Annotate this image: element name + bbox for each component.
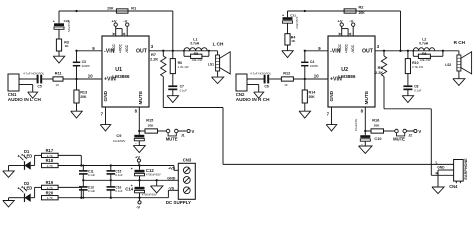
- svg-text:V: V: [192, 129, 195, 134]
- capacitor C5 4.7uF non polar: [37, 75, 39, 84]
- ground below R14: [304, 103, 306, 111]
- wire output left channel: [149, 50, 218, 52]
- svg-text:+VCC: +VCC: [338, 43, 342, 53]
- svg-text:LS1: LS1: [208, 62, 214, 66]
- svg-text:47uF/50V: 47uF/50V: [295, 17, 299, 29]
- svg-text:R: R: [436, 171, 439, 175]
- resistor R16: [365, 130, 371, 132]
- svg-text:-VS: -VS: [168, 186, 175, 190]
- wire R19 right: [58, 186, 81, 188]
- svg-text:0.7uH: 0.7uH: [191, 41, 200, 45]
- wire R10 to C8: [407, 74, 409, 86]
- svg-text:R12: R12: [283, 71, 290, 76]
- capacitor C16 0.1uF: [110, 180, 112, 187]
- jumper J1 MUTE: [166, 129, 170, 133]
- wire corner to speaker R: [458, 51, 460, 55]
- svg-text:2.2K: 2.2K: [375, 71, 383, 75]
- svg-text:CN4: CN4: [449, 184, 458, 189]
- op-amp U2 LM3886 body: [328, 36, 375, 107]
- ground left of D2: [8, 198, 10, 201]
- svg-text:J2: J2: [408, 133, 412, 137]
- svg-text:LM3886: LM3886: [338, 74, 356, 79]
- capacitor C3 220PF: [73, 61, 80, 63]
- svg-text:LED: LED: [24, 186, 32, 191]
- wire R15 to J1: [158, 130, 167, 132]
- ground below CN1: [28, 92, 38, 98]
- ground below C9: [138, 141, 140, 146]
- svg-text:R CH: R CH: [454, 40, 466, 45]
- svg-text:C10: C10: [374, 136, 381, 141]
- svg-text:0.1uF: 0.1uF: [115, 189, 123, 193]
- svg-text:10: 10: [88, 74, 93, 79]
- svg-text:2.7E 1W: 2.7E 1W: [178, 65, 189, 69]
- svg-text:CN2: CN2: [236, 92, 245, 97]
- wire R6 to C7: [172, 74, 174, 86]
- svg-text:10: 10: [314, 74, 319, 79]
- node feedback junction right: [304, 10, 306, 12]
- svg-text:CN3: CN3: [183, 157, 192, 162]
- connector CN3 DC supply: [178, 163, 195, 199]
- svg-text:2.2K: 2.2K: [150, 56, 158, 61]
- svg-text:4700uF/63V: 4700uF/63V: [146, 173, 161, 177]
- svg-text:0.1uF: 0.1uF: [88, 189, 96, 193]
- svg-text:-VCC: -VCC: [351, 44, 355, 53]
- svg-text:10uF/63V: 10uF/63V: [113, 139, 125, 143]
- resistor R5 10E 2W parallel: [183, 51, 185, 57]
- svg-text:20K: 20K: [374, 124, 380, 128]
- wire +V supply rail: [58, 165, 174, 167]
- resistor R1: [116, 9, 128, 13]
- svg-text:R1: R1: [131, 6, 137, 11]
- svg-text:0.7uH: 0.7uH: [419, 41, 428, 45]
- resistor R8 10E 2W parallel: [412, 51, 414, 57]
- capacitor C10 10uF: [360, 135, 370, 138]
- svg-text:U2: U2: [341, 67, 348, 73]
- resistor R11: [53, 77, 63, 81]
- svg-text:C9: C9: [116, 133, 122, 138]
- wire +VIN left: [63, 78, 102, 80]
- svg-text:4700uF/63V: 4700uF/63V: [142, 192, 157, 196]
- svg-text:4.7K: 4.7K: [47, 196, 53, 200]
- svg-text:R15: R15: [146, 118, 154, 123]
- ground pin 7 U2: [331, 107, 333, 125]
- svg-text:+VS: +VS: [168, 166, 175, 170]
- capacitor C14 4700uF: [139, 180, 141, 187]
- svg-text:R2: R2: [359, 5, 364, 10]
- ground below CN4: [432, 187, 444, 194]
- resistor R14: [304, 79, 306, 90]
- wire feedback top rail left channel: [59, 10, 173, 12]
- wire output right channel: [375, 50, 459, 52]
- wire D2 split: [34, 187, 36, 197]
- diode D1 LED: [9, 165, 25, 167]
- capacitor C21: [287, 11, 289, 17]
- capacitor C8 0.1uF: [403, 85, 412, 87]
- svg-text:R8: R8: [422, 52, 426, 56]
- wire -VIN left: [77, 50, 103, 52]
- wire -VIN right: [305, 50, 328, 52]
- ground below LS1: [217, 71, 219, 77]
- ground pin 7 U1: [105, 107, 107, 125]
- svg-text:220PF: 220PF: [82, 64, 91, 68]
- svg-text:20K: 20K: [148, 124, 154, 128]
- svg-text:R9: R9: [378, 66, 383, 70]
- pin marks U2 top: [339, 33, 341, 35]
- svg-text:R16: R16: [372, 118, 380, 123]
- svg-text:0.1uF: 0.1uF: [180, 89, 188, 93]
- svg-text:-VCC: -VCC: [125, 44, 129, 53]
- svg-text:R11: R11: [55, 71, 63, 76]
- ground below C10: [364, 141, 366, 146]
- resistor R6 2.7E: [172, 51, 174, 59]
- svg-text:R18: R18: [46, 158, 54, 163]
- capacitor C15 0.1uF: [110, 166, 112, 171]
- svg-text:47uF/50V: 47uF/50V: [67, 20, 71, 32]
- svg-text:LS2: LS2: [445, 63, 451, 67]
- pin 3 wire corner to speaker: [217, 51, 219, 55]
- wire feedback top rail right channel: [288, 10, 401, 12]
- capacitor C11 0.1uF: [82, 166, 84, 171]
- capacitor C22: [58, 11, 60, 23]
- svg-text:20K: 20K: [309, 95, 316, 99]
- svg-text:MUTE: MUTE: [166, 137, 178, 142]
- svg-text:OUT: OUT: [362, 48, 374, 54]
- wire +VIN right: [293, 78, 328, 80]
- port -V at J1: [187, 129, 190, 132]
- wire mute pin 8 U1: [138, 107, 140, 135]
- wire mute pin 8 U2: [364, 107, 366, 135]
- wire R7 to earphone L: [163, 107, 223, 109]
- resistor R9 2.2K: [383, 51, 385, 56]
- svg-text:V: V: [418, 129, 421, 134]
- svg-text:R17: R17: [46, 148, 54, 153]
- resistor R15: [139, 130, 145, 132]
- svg-text:MUTE: MUTE: [393, 137, 405, 142]
- svg-text:4.7K: 4.7K: [47, 164, 53, 168]
- capacitor C6 4.7uF non polar: [264, 75, 266, 84]
- ground below R3: [58, 51, 60, 56]
- wire GND to CN4: [438, 169, 454, 171]
- resistor R19: [35, 186, 42, 188]
- svg-text:LED: LED: [24, 153, 32, 158]
- port -V below rail: [139, 198, 141, 201]
- svg-text:20K: 20K: [359, 11, 366, 15]
- capacitor C9 10uF: [134, 135, 144, 138]
- connector CN4 earphone: [454, 160, 464, 182]
- svg-text:L CH: L CH: [213, 42, 224, 47]
- inductor L2 0.7uH: [413, 48, 434, 51]
- svg-text:R19: R19: [46, 180, 54, 185]
- svg-text:GND: GND: [329, 90, 335, 101]
- svg-text:+VCC: +VCC: [112, 43, 116, 53]
- svg-text:+: +: [53, 20, 55, 24]
- svg-text:-V: -V: [136, 205, 140, 210]
- speaker LS1 L CH: [216, 55, 220, 71]
- ground below CN2: [254, 92, 264, 98]
- svg-text:4.7uF NON POL: 4.7uF NON POL: [250, 72, 271, 76]
- wire C5 to R11: [42, 78, 53, 80]
- svg-text:4.7uF NON POL: 4.7uF NON POL: [23, 72, 44, 76]
- svg-text:0.1uF: 0.1uF: [414, 89, 422, 93]
- svg-text:+: +: [282, 13, 284, 17]
- svg-text:20K: 20K: [107, 7, 114, 11]
- resistor R4: [285, 34, 290, 45]
- ground on GND rail: [156, 180, 158, 186]
- resistor R3: [56, 39, 61, 51]
- capacitor C4 220PF: [301, 61, 308, 63]
- connector CN1 audio in L: [8, 74, 19, 91]
- wire D1 split: [34, 155, 36, 165]
- svg-text:0.1uF: 0.1uF: [88, 173, 96, 177]
- capacitor C7 0.1uF: [168, 85, 177, 87]
- pin marks U1 top: [113, 33, 115, 35]
- inductor L1 0.7uH: [184, 48, 207, 51]
- jumper J2 MUTE: [395, 129, 399, 133]
- resistor R2: [344, 9, 356, 13]
- resistor R10 2.7E: [407, 51, 409, 59]
- svg-text:GND: GND: [167, 176, 175, 180]
- svg-text:J1: J1: [181, 133, 185, 137]
- svg-text:2.7E 1W: 2.7E 1W: [412, 65, 423, 69]
- speaker LS2 R CH: [457, 55, 461, 71]
- svg-text:R20: R20: [46, 190, 54, 195]
- svg-text:4.7K: 4.7K: [47, 186, 53, 190]
- svg-text:10E /2W: 10E /2W: [420, 58, 431, 62]
- svg-text:AUDIO IN R CH: AUDIO IN R CH: [236, 97, 270, 102]
- svg-text:1K: 1K: [284, 83, 288, 87]
- svg-text:C6: C6: [264, 84, 268, 88]
- svg-text:10E /2W: 10E /2W: [192, 58, 203, 62]
- svg-text:20K: 20K: [80, 95, 87, 99]
- wire C6 to R12: [269, 78, 281, 80]
- wire R9 to earphone R: [384, 108, 431, 110]
- svg-text:C14: C14: [125, 187, 134, 192]
- resistor R20: [42, 196, 59, 200]
- svg-text:C5: C5: [37, 84, 41, 88]
- resistor R13: [76, 79, 78, 90]
- svg-text:C12: C12: [146, 168, 155, 173]
- ground below C8: [407, 89, 409, 95]
- ground below LS2: [458, 71, 460, 79]
- svg-text:LM3886: LM3886: [112, 74, 130, 79]
- svg-text:OUT: OUT: [136, 48, 148, 54]
- svg-text:1K: 1K: [56, 83, 60, 87]
- svg-text:GND: GND: [103, 90, 109, 101]
- svg-text:0.1uF: 0.1uF: [115, 173, 123, 177]
- svg-text:U1: U1: [115, 67, 122, 73]
- svg-text:+VCC: +VCC: [118, 43, 122, 53]
- svg-text:220PF: 220PF: [310, 64, 319, 68]
- ground below C7: [172, 89, 174, 95]
- wire -V supply rail: [58, 197, 168, 199]
- svg-text:EARPHONE: EARPHONE: [464, 158, 468, 180]
- svg-text:MUTE: MUTE: [364, 91, 370, 105]
- ground left of D1: [8, 166, 10, 171]
- connector CN2 audio in R: [236, 74, 247, 91]
- resistor R12: [281, 77, 293, 81]
- svg-text:GND: GND: [437, 166, 445, 170]
- wire GND rail: [83, 179, 178, 181]
- svg-text:10uF/63V: 10uF/63V: [354, 119, 358, 131]
- svg-text:MUTE: MUTE: [138, 91, 144, 105]
- wire R16 to J2: [384, 130, 395, 132]
- svg-text:+VCC: +VCC: [344, 43, 348, 53]
- op-amp U1 LM3886 body: [102, 36, 149, 107]
- resistor R18: [42, 163, 59, 167]
- svg-text:AUDIO IN L CH: AUDIO IN L CH: [8, 97, 42, 102]
- node feedback junction left: [75, 10, 77, 12]
- ground below R4: [287, 45, 289, 51]
- capacitor C13 0.1uF: [82, 180, 84, 187]
- resistor R17: [35, 154, 42, 156]
- capacitor C12 4700uF: [139, 166, 141, 170]
- svg-text:CN1: CN1: [8, 92, 17, 97]
- diode D2 LED: [9, 197, 25, 199]
- port -V at J2: [414, 129, 417, 132]
- wire R17 right: [58, 154, 81, 156]
- svg-text:R5: R5: [194, 52, 198, 56]
- ground below R13: [76, 103, 78, 111]
- svg-text:DC SUPPLY: DC SUPPLY: [166, 200, 191, 205]
- resistor R7 2.2K: [162, 51, 164, 56]
